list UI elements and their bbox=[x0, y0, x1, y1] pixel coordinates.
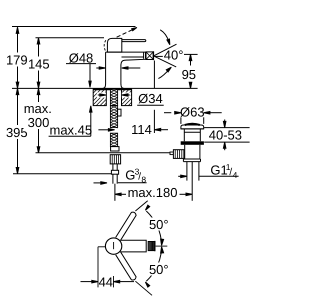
dim label Ø48 with leader bbox=[66, 50, 96, 87]
aerator extension line bbox=[153, 61, 155, 89]
supply hose nut bbox=[111, 170, 118, 174]
spout tube bottom line bbox=[122, 56, 144, 58]
dim 114 bbox=[98, 110, 168, 137]
deck slab left of hole bbox=[81, 89, 124, 105]
spray arc arrow lower bbox=[158, 67, 171, 78]
label G1 1/4 bbox=[178, 162, 238, 180]
lever raised dashed line bbox=[117, 28, 137, 38]
spray line upper bbox=[154, 44, 177, 56]
svg-text:8: 8 bbox=[141, 174, 146, 184]
svg-text:50°: 50° bbox=[149, 262, 169, 277]
head top line bbox=[106, 51, 147, 53]
svg-text:50°: 50° bbox=[149, 217, 169, 232]
pop-up linkage rod horizontal bbox=[36, 152, 171, 154]
plan lever at -50 bbox=[116, 252, 136, 280]
dim ext line 145 top bbox=[36, 37, 105, 39]
waste upper body bbox=[181, 129, 204, 141]
svg-text:40°: 40° bbox=[164, 48, 184, 63]
svg-text:179: 179 bbox=[6, 52, 28, 67]
body diameter arrows at y68 bbox=[96, 67, 140, 69]
waste tailpipe bbox=[187, 162, 199, 181]
svg-text:4: 4 bbox=[233, 170, 238, 180]
threaded rod upper bbox=[110, 106, 117, 128]
deck top edge thick bbox=[93, 88, 131, 90]
svg-text:max.: max. bbox=[24, 101, 52, 116]
waste plug cap bbox=[181, 124, 204, 129]
waste body below flange bbox=[183, 145, 200, 162]
deck surface reference line bbox=[12, 87, 198, 89]
plan center tick bbox=[113, 242, 115, 249]
rod connector upper bbox=[111, 147, 119, 151]
dim Ø63 bbox=[164, 105, 222, 124]
svg-text:95: 95 bbox=[182, 67, 196, 82]
column left edge bbox=[103, 52, 106, 88]
supply pipe walls bbox=[113, 164, 117, 184]
plan lever ext line upper bbox=[135, 201, 147, 211]
aerator (side view) bbox=[146, 51, 153, 60]
svg-text:40-53: 40-53 bbox=[209, 128, 242, 143]
mounting nut bbox=[118, 109, 121, 116]
label G3/8 bbox=[94, 166, 147, 184]
svg-text:145: 145 bbox=[28, 56, 50, 71]
dim line 179/395 bbox=[6, 27, 28, 174]
dim 40-53 bbox=[204, 120, 250, 151]
dim line 145/max300 bbox=[24, 38, 53, 153]
supply pipe center extension bbox=[114, 184, 116, 201]
svg-text:Ø63: Ø63 bbox=[180, 105, 205, 120]
plan aerator bbox=[148, 241, 155, 251]
lever tilt arc marks bbox=[104, 40, 106, 50]
threaded rod lower bbox=[110, 133, 117, 147]
dim 95 bbox=[182, 54, 198, 88]
spray line lower bbox=[154, 56, 177, 67]
dim ext line 395 bottom bbox=[13, 173, 111, 175]
dim Ø34 hole bbox=[97, 91, 164, 106]
plan swing arc upper bbox=[145, 205, 163, 245]
dim extension line top (total height) bbox=[12, 26, 136, 28]
threaded shank in deck bbox=[110, 89, 117, 106]
plan lever ext line lower bbox=[135, 281, 152, 295]
dim 44 bbox=[81, 247, 135, 289]
plan lever at +50 bbox=[116, 212, 136, 240]
svg-text:114: 114 bbox=[131, 122, 152, 137]
plan spout bbox=[120, 240, 147, 252]
svg-text:max.45: max.45 bbox=[50, 123, 93, 138]
rod connector knurled bbox=[110, 155, 120, 164]
faucet cartridge boss bbox=[107, 38, 121, 52]
faucet lever blade bbox=[122, 40, 146, 42]
svg-text:Ø34: Ø34 bbox=[138, 91, 163, 106]
plan swing arc lower bbox=[145, 247, 163, 287]
label 50deg upper bbox=[147, 217, 172, 232]
dim max.180 bbox=[115, 162, 192, 201]
svg-text:44: 44 bbox=[99, 274, 113, 289]
spout underside and column right edge bbox=[121, 57, 147, 88]
label 50deg lower bbox=[147, 262, 172, 277]
spout end cap bbox=[144, 52, 146, 59]
label max.45 deck thickness bbox=[49, 106, 93, 138]
waste flange bbox=[181, 141, 204, 145]
waste side knob bbox=[170, 150, 184, 159]
svg-text:300: 300 bbox=[28, 115, 50, 130]
spray arc arrow upper bbox=[160, 30, 170, 45]
plan axis tick bbox=[156, 245, 168, 247]
svg-text:max.180: max.180 bbox=[128, 185, 178, 200]
label 40deg bbox=[155, 48, 183, 63]
plan view body circle bbox=[105, 238, 121, 254]
deck slab right of hole bbox=[109, 89, 152, 105]
